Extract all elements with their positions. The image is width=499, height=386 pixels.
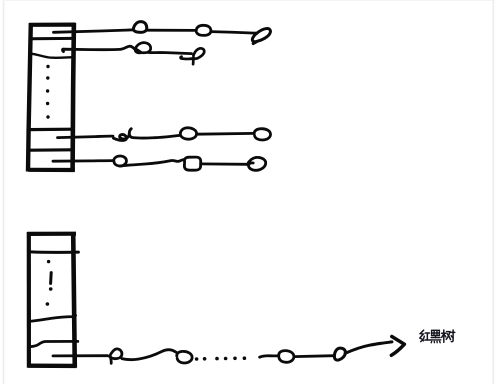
top array divider 1 bbox=[32, 37, 74, 40]
arrow head bbox=[391, 337, 404, 356]
chain 2 wire bbox=[149, 53, 192, 54]
chain 4 node loop 1 bbox=[114, 156, 127, 166]
bottom chain wire from last bucket bbox=[53, 354, 108, 357]
bottom chain node loop 2 bbox=[177, 351, 192, 363]
top array divider 2 wavy bbox=[32, 54, 73, 58]
chain 1 node loop 1 bbox=[133, 22, 147, 33]
chain 3 tail node bbox=[254, 129, 270, 140]
bottom array divider 2 wavy bbox=[29, 315, 76, 321]
chain 1 wire bbox=[211, 32, 257, 34]
arrow shaft to red-black tree bbox=[345, 342, 392, 353]
chain 1 node loop 2 bbox=[196, 25, 211, 35]
chain 3 node loop 2 bbox=[180, 128, 196, 139]
chain 4 node box bbox=[184, 157, 200, 170]
chain 4 wire from bucket n-1 bbox=[53, 159, 113, 162]
bottom chain wire bbox=[122, 350, 176, 360]
bottom chain ellipsis dots bbox=[195, 356, 246, 360]
bottom array divider 1 bbox=[31, 250, 78, 253]
bottom array divider 3 wavy bbox=[31, 341, 78, 346]
chain 4 wire bbox=[120, 160, 183, 166]
chain 4 wire bbox=[201, 162, 247, 165]
bottom chain wire bbox=[260, 356, 279, 357]
top frame border bbox=[3, 0, 493, 2]
bottom chain node loop 3 bbox=[279, 351, 294, 363]
top array ellipsis dots bbox=[46, 65, 50, 119]
chain 3 wire bbox=[197, 132, 254, 136]
chain 1 wire from bucket 0 bbox=[54, 30, 133, 32]
chain 3 wire bbox=[129, 135, 180, 138]
top array divider 3 bbox=[28, 128, 73, 132]
chain 1 wire bbox=[147, 29, 196, 32]
chain 3 node loop 1 bbox=[114, 129, 132, 141]
glyph shu (tree) bbox=[442, 330, 455, 342]
chain 3 wire from bucket n-2 bbox=[58, 136, 114, 137]
top array outline bbox=[29, 23, 75, 27]
bottom array exclamation bar bbox=[49, 273, 53, 284]
bottom chain wire bbox=[294, 354, 334, 358]
bottom chain node loop 1 bbox=[110, 349, 122, 363]
chain 4 tail node bbox=[247, 157, 266, 170]
chain 1 tail node bbox=[252, 29, 270, 44]
glyph hong (red) silk radical bbox=[420, 330, 430, 341]
chain 2 node loop 1 bbox=[135, 43, 151, 53]
top array divider 4 bbox=[31, 148, 72, 152]
bottom array exclamation dot bbox=[46, 260, 53, 306]
left frame border bbox=[3, 0, 5, 384]
chain 2 tail node with curl bbox=[181, 48, 205, 64]
glyph hei (black) bbox=[430, 330, 440, 342]
chain 2 wire from bucket 1 bbox=[63, 46, 135, 51]
bottom array outline bbox=[27, 232, 76, 236]
glyph hong work part bbox=[425, 332, 429, 334]
right frame border bbox=[492, 0, 494, 384]
bottom chain node loop 4 bbox=[334, 348, 345, 360]
label: red-black tree (hand-drawn CJK glyphs) bbox=[420, 330, 455, 343]
